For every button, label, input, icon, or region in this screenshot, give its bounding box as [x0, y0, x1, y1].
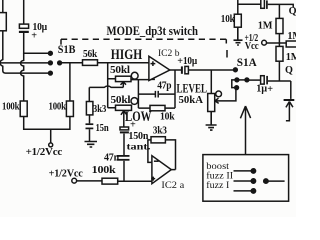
- svg-text:MODE_dp3t switch: MODE_dp3t switch: [107, 23, 199, 38]
- capacitor 47n: [117, 155, 130, 157]
- wire input left vertical: [2, 0, 4, 13]
- resistor 3k3: [86, 102, 93, 115]
- selector arrow right (fuzz link): [286, 102, 293, 121]
- svg-text:50kl: 50kl: [111, 95, 131, 106]
- wire cap to S1B throw1 junction: [24, 33, 49, 54]
- svg-text:150n: 150n: [128, 131, 148, 142]
- svg-text:HIGH: HIGH: [111, 47, 143, 63]
- node S1A throw2: [235, 78, 239, 82]
- resistor 100k left: [20, 101, 27, 117]
- wire input cap branch vertical: [23, 0, 25, 24]
- wiper arrow LOW: [121, 111, 127, 127]
- wire cap to Q base: [268, 4, 294, 7]
- resistor 1M lower: [276, 46, 283, 61]
- wire 47n to +input rail: [123, 161, 125, 181]
- capacitor 150n tant (polarized): [120, 127, 129, 130]
- wire S1A arm: [237, 79, 247, 81]
- svg-text:+1/2Vcc: +1/2Vcc: [26, 147, 63, 158]
- wire output junction V6: [174, 70, 176, 108]
- wire HIGH pot output to IC2b -input: [131, 79, 149, 81]
- svg-text:47p: 47p: [157, 81, 172, 92]
- wire top rail to cap: [238, 3, 261, 5]
- resistor 100k right: [66, 101, 73, 117]
- wire tant to 47n: [123, 134, 125, 155]
- wire LOW circle to V5: [137, 100, 140, 102]
- svg-text:100k: 100k: [92, 165, 116, 176]
- svg-text:Q: Q: [285, 65, 293, 76]
- terminal +1/2Vcc circle: [49, 143, 53, 147]
- resistor 10k bias: [234, 14, 241, 27]
- wire fuzz I row: [234, 190, 252, 192]
- wire 1u to Q node: [268, 80, 291, 82]
- ground 10k: [234, 27, 243, 45]
- resistor 10k feedback: [150, 105, 165, 110]
- svg-text:3k3: 3k3: [93, 104, 106, 115]
- capacitor 15n: [89, 115, 91, 141]
- ground LEVEL: [206, 112, 217, 131]
- wire common selector: [264, 179, 268, 183]
- wire top bias vertical: [237, 0, 239, 14]
- svg-text:fuzz I: fuzz I: [206, 180, 229, 190]
- svg-text:Q: Q: [289, 6, 296, 17]
- selector arrow big (mode link): [240, 106, 250, 155]
- wire pole to 1u cap: [247, 79, 261, 81]
- switch S1B pole contact: [58, 61, 62, 65]
- capacitor 10u output (polarized): [181, 66, 183, 73]
- wire V2 down with two hops: [21, 53, 24, 101]
- svg-text:10µ: 10µ: [183, 56, 197, 67]
- resistor 1M horizontal (clipped): [286, 41, 298, 47]
- node S1B throw 1: [49, 51, 53, 55]
- wire branch down to right 100k: [69, 63, 71, 101]
- wire node after 56k down (V4) to pot left terminals: [108, 63, 116, 108]
- svg-text:50kA: 50kA: [179, 95, 204, 106]
- svg-text:S1A: S1A: [237, 55, 257, 69]
- svg-text:1M: 1M: [258, 20, 273, 31]
- node S1B throw 3: [49, 71, 53, 75]
- wire bottom join to +1/2Vcc terminal: [24, 117, 70, 143]
- svg-text:10k: 10k: [221, 14, 235, 25]
- svg-text:15n: 15n: [96, 123, 109, 134]
- svg-text:3k3: 3k3: [153, 126, 167, 137]
- capacitor 1u (polarized): [261, 76, 265, 84]
- wire 10u to S1A throw1: [188, 69, 234, 71]
- svg-text:1M: 1M: [286, 52, 296, 63]
- svg-text:1M: 1M: [287, 31, 296, 42]
- wire pole to 56k: [61, 62, 83, 64]
- svg-text:50kl: 50kl: [110, 65, 130, 76]
- svg-text:100k: 100k: [2, 101, 20, 112]
- svg-text:+: +: [267, 84, 273, 95]
- svg-text:100k: 100k: [49, 101, 67, 112]
- wire feedback vertical V5: [137, 80, 139, 109]
- node S1A throw1: [234, 68, 238, 72]
- wire down to Q emitter bar: [290, 81, 292, 99]
- svg-text:LEVEL: LEVEL: [177, 81, 208, 95]
- resistor 3k3 feedback IC2a: [151, 137, 165, 143]
- wire op-amp output: [170, 69, 182, 71]
- svg-text:+: +: [31, 31, 37, 42]
- wire row2 from left edge: [0, 62, 49, 64]
- svg-text:10k: 10k: [160, 112, 175, 123]
- wire Vcc to 1M junction: [267, 42, 287, 44]
- node S1A throw3: [235, 86, 239, 90]
- wire W1 wiper/3k3 with hop over V4: [89, 86, 123, 102]
- capacitor 47p: [138, 93, 175, 95]
- resistor 100k bias IC2a: [102, 178, 118, 184]
- capacitor top coupling: [261, 0, 265, 8]
- node S1B throw 2: [49, 61, 53, 65]
- svg-text:+: +: [130, 120, 136, 131]
- terminal +1/2Vcc bottom: [72, 178, 77, 183]
- wire +input rail: [118, 180, 152, 182]
- svg-text:Vcc: Vcc: [245, 41, 259, 52]
- ground left: [85, 142, 98, 148]
- wire jumper throw2-throw3: [232, 80, 237, 88]
- op-amp IC2a: [152, 156, 171, 184]
- wiper arrow HIGH: [121, 82, 127, 88]
- wire below clipped resistor with hop over row2, curving into row3: [0, 31, 6, 73]
- resistor 1M upper: [276, 18, 283, 33]
- Q emitter bar: [284, 99, 295, 101]
- svg-text:47n: 47n: [104, 153, 120, 164]
- svg-text:IC2 a: IC2 a: [161, 180, 184, 190]
- switch S1A pole contact: [245, 78, 249, 82]
- resistor 56k: [83, 60, 98, 66]
- svg-text:1µ: 1µ: [256, 84, 267, 95]
- wire branch to LEVEL pot: [210, 70, 212, 94]
- resistor unlabeled (clipped at left edge): [0, 13, 6, 31]
- wiper arrow LEVEL: [215, 88, 236, 103]
- svg-text:boost: boost: [206, 161, 229, 171]
- svg-text:tant.: tant.: [127, 142, 151, 152]
- wire fuzz II row: [234, 180, 252, 182]
- capacitor 10u input (polarized): [19, 24, 28, 28]
- legend box boost/fuzz: [203, 155, 289, 202]
- wire row3: [6, 72, 49, 74]
- wire 3k3 left to -input: [148, 140, 152, 163]
- wire boost row: [234, 170, 252, 172]
- svg-text:fuzz II: fuzz II: [206, 170, 233, 180]
- wire 56k to IC2b +input: [98, 62, 149, 64]
- svg-text:56k: 56k: [83, 49, 97, 60]
- svg-text:+1/2Vcc: +1/2Vcc: [49, 169, 84, 180]
- wire 3k3 right to output: [165, 140, 175, 170]
